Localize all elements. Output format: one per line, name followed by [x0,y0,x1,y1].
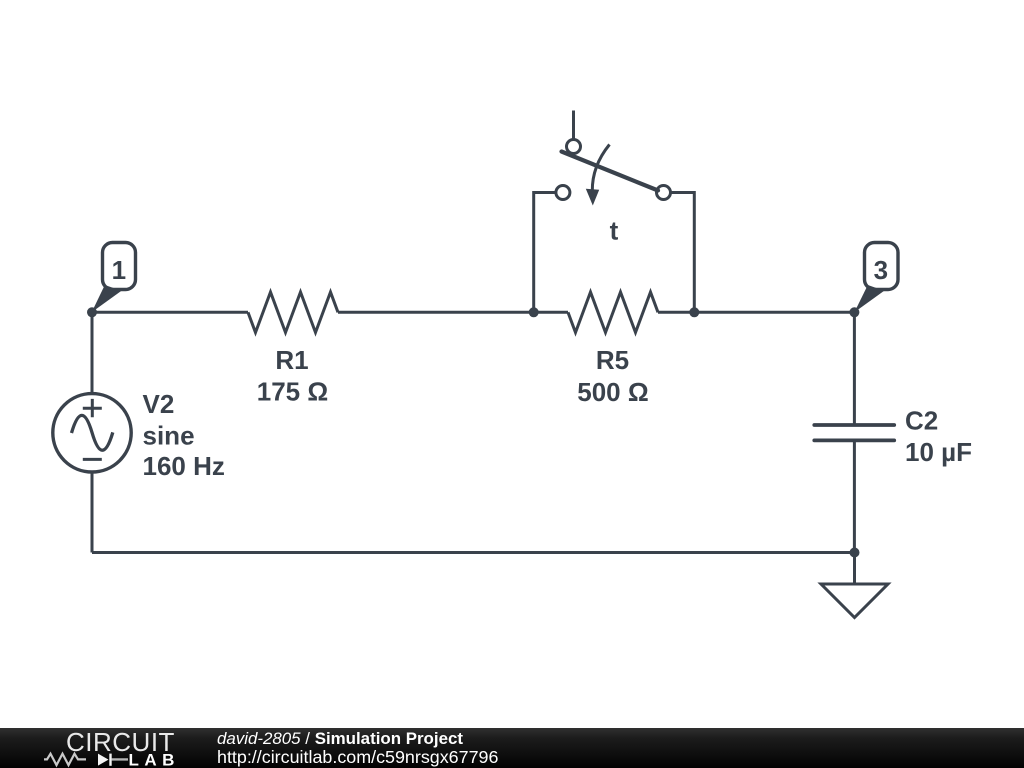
svg-text:V2: V2 [143,389,175,419]
footer url line [217,747,498,767]
R1 designator label [275,345,308,375]
wire node 1 down to V2 plus terminal [91,312,94,394]
svg-text:C2: C2 [905,406,938,436]
logo diode glyph [98,754,128,766]
capacitor C2 [814,425,894,440]
svg-text:160 Hz: 160 Hz [143,451,225,481]
V2 frequency label 160 Hz [143,451,225,481]
junction dot left of R5 [529,307,539,317]
wire R1 to left junction [338,311,534,314]
R5 value label 500 ohm [577,377,648,407]
logo LAB wordmark [129,751,180,768]
svg-text:1: 1 [112,255,126,285]
V2 designator label [143,389,175,419]
ground [821,584,888,618]
switch SW1 top terminal stub wire [572,111,575,140]
junction dot right of R5 [689,307,699,317]
switch SW1 actuation arrow [586,145,610,206]
footer bar background [0,728,1024,768]
node 1 name label [112,255,126,285]
switch SW1 arm [562,152,659,191]
switch SW1 control label t [610,215,619,245]
svg-text:david-2805 / Simulation Projec: david-2805 / Simulation Project [217,729,463,748]
footer author and title line [217,729,463,748]
svg-text:R1: R1 [275,345,308,375]
wire C2 bottom plate down to bottom rail [853,440,856,552]
logo resistor glyph [44,754,86,765]
svg-text:10 µF: 10 µF [905,437,972,467]
logo CIRCUIT wordmark [66,727,175,757]
svg-text:3: 3 [874,255,888,285]
voltage source V2 [53,394,131,472]
wire right junction to node 3 [694,311,854,314]
svg-text:http://circuitlab.com/c59nrsgx: http://circuitlab.com/c59nrsgx67796 [217,747,498,767]
svg-text:sine: sine [143,420,195,450]
wire node 1 to R1 [92,311,248,314]
svg-text:500 Ω: 500 Ω [577,377,648,407]
svg-text:t: t [610,215,619,245]
node 1 flag [92,243,136,313]
wire junction to ground symbol [853,553,856,585]
switch SW1 left throw terminal [556,186,570,200]
wire V2 minus terminal down to bottom rail [91,472,94,553]
C2 designator label [905,406,938,436]
resistor R5 [568,292,658,332]
wire left junction to R5 [534,311,568,314]
wire switch branch left riser [534,193,556,313]
wire R5 to right junction [658,311,694,314]
bottom rail wire [92,551,855,554]
node 1 junction dot [87,307,97,317]
wire switch branch right riser [671,193,695,313]
V2 type label sine [143,420,195,450]
svg-text:R5: R5 [596,345,629,375]
svg-text:175 Ω: 175 Ω [257,377,328,407]
wire node 3 down to C2 top plate [853,312,856,425]
resistor R1 [248,292,338,332]
R1 value label 175 ohm [257,377,328,407]
R5 designator label [596,345,629,375]
switch SW1 top throw terminal [567,140,581,154]
node 3 flag [854,243,898,313]
C2 value label 10 uF [905,437,972,467]
switch SW1 right common terminal [657,186,671,200]
svg-text:LAB: LAB [129,751,180,768]
node 3 junction dot [849,307,859,317]
node 3 name label [874,255,888,285]
bottom rail ground junction dot [850,548,860,558]
